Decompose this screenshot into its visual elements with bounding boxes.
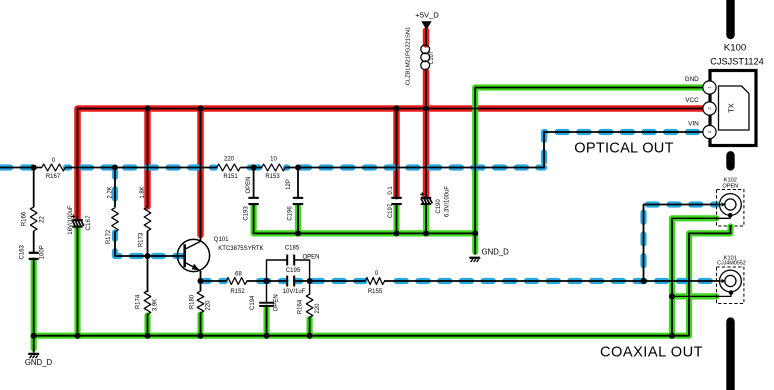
wire C197 top xyxy=(396,109,398,198)
label OPTICAL OUT xyxy=(574,140,674,156)
svg-text:OPEN: OPEN xyxy=(722,184,738,190)
label R153 xyxy=(265,174,280,180)
svg-text:10: 10 xyxy=(270,157,277,163)
board edge bar bottom xyxy=(726,322,734,390)
svg-text:GND_D: GND_D xyxy=(25,358,53,367)
wire main line seg2 xyxy=(66,167,217,169)
label Q101 part xyxy=(218,246,263,252)
capacitor C185 xyxy=(286,255,295,266)
inductor L107 xyxy=(421,45,430,70)
svg-text:+5V_D: +5V_D xyxy=(415,11,439,20)
node R172/main xyxy=(112,165,118,171)
node K102 tap xyxy=(641,278,647,284)
capacitor C193 xyxy=(248,197,258,205)
resistor R172 xyxy=(112,208,119,232)
wire R173 to R174 xyxy=(147,231,149,292)
wire VIN elbow to K100 pin3 xyxy=(544,132,704,168)
connector K100 pin 2 VCC xyxy=(703,102,716,115)
wire junction to C194 xyxy=(266,281,268,302)
svg-text:R172: R172 xyxy=(106,229,112,244)
wire R172 top blue highlight xyxy=(112,172,118,207)
svg-text:3: 3 xyxy=(707,130,712,133)
board edge bar middle xyxy=(726,155,734,166)
wire Q101 base blue highlight xyxy=(115,233,183,257)
wire main line seg3 xyxy=(241,167,263,169)
svg-text:R153: R153 xyxy=(265,174,280,180)
wire main to R166 xyxy=(33,168,35,208)
wire K102 shield riser xyxy=(671,218,673,335)
label C163 value xyxy=(40,245,46,259)
svg-text:C163: C163 xyxy=(20,244,26,259)
svg-text:OPTICAL OUT: OPTICAL OUT xyxy=(574,140,674,156)
resistor R180 xyxy=(197,291,204,313)
svg-text:GND_D: GND_D xyxy=(482,248,510,257)
svg-text:CJSJST1124: CJSJST1124 xyxy=(710,57,763,67)
wire VCC rail xyxy=(78,109,704,220)
node R173/rail xyxy=(145,106,151,112)
resistor R164 xyxy=(306,294,313,317)
node gnd rail end xyxy=(472,230,478,236)
svg-text:R173: R173 xyxy=(139,232,145,247)
wire R164 to bus xyxy=(309,317,311,336)
svg-text:K102: K102 xyxy=(724,178,737,184)
label K100 part xyxy=(710,57,763,67)
wire C194 bottom green highlight xyxy=(263,308,269,336)
svg-text:C197: C197 xyxy=(388,203,394,218)
node bus/C194 xyxy=(264,333,270,339)
wire C185 right arm xyxy=(295,260,309,281)
node L107/rail xyxy=(423,106,429,112)
wire VIN elbow blue highlight xyxy=(544,132,703,168)
wire emitter line blue highlight seg2 xyxy=(249,278,286,284)
label R173 value xyxy=(140,186,146,198)
label C185 xyxy=(285,246,300,252)
wire main line blue highlight seg4 xyxy=(286,164,544,170)
label K100 xyxy=(724,43,746,54)
label GND_D right xyxy=(482,248,510,257)
svg-text:OPEN: OPEN xyxy=(246,176,252,193)
label K101 xyxy=(724,255,737,261)
svg-text:1.8K: 1.8K xyxy=(140,186,146,198)
wire main to C193 xyxy=(253,168,255,198)
svg-text:L107: L107 xyxy=(429,51,435,64)
svg-text:R151: R151 xyxy=(223,174,238,180)
wire R164 bottom green highlight xyxy=(307,319,313,336)
label R174 xyxy=(136,294,142,309)
label C167 xyxy=(85,215,92,231)
svg-text:GND: GND xyxy=(685,76,700,83)
node C193/main xyxy=(251,165,257,171)
label C197 xyxy=(388,203,394,218)
svg-text:12P: 12P xyxy=(286,179,292,190)
label R172 xyxy=(106,229,112,244)
svg-text:KTC3875SYRTK: KTC3875SYRTK xyxy=(218,246,263,252)
wire emitter line seg4 xyxy=(384,280,726,282)
wire R172 to Q101 base xyxy=(115,233,184,257)
node bus/R180 xyxy=(198,333,204,339)
capacitor C163 xyxy=(29,252,39,260)
wire C196 bottom xyxy=(297,205,299,234)
svg-text:C167: C167 xyxy=(85,215,92,231)
svg-text:C185: C185 xyxy=(285,246,300,252)
svg-text:VIN: VIN xyxy=(688,120,699,127)
wire cap ground rail green highlight xyxy=(254,206,476,233)
label R174 value xyxy=(153,299,159,311)
label R167 xyxy=(46,174,61,180)
label C195 xyxy=(286,268,301,274)
label R152 xyxy=(230,289,245,295)
svg-text:220: 220 xyxy=(224,157,235,163)
label C194 value xyxy=(274,294,280,311)
svg-text:R167: R167 xyxy=(46,174,61,180)
label GND_D left xyxy=(25,358,53,367)
svg-text:68: 68 xyxy=(235,272,242,278)
wire K102 tap xyxy=(644,205,720,282)
label COAXIAL OUT xyxy=(600,344,703,360)
wire +5V_D to L107 red highlight xyxy=(423,31,430,45)
node C190/gnd rail xyxy=(423,230,429,236)
svg-text:C194: C194 xyxy=(250,295,256,310)
wire L107 to C190 xyxy=(425,70,427,198)
wire ground bus green highlight xyxy=(34,333,689,339)
label K102 value xyxy=(722,184,738,190)
svg-text:6.3V/100uF: 6.3V/100uF xyxy=(444,186,450,217)
resistor R167 xyxy=(42,164,66,171)
label pin VIN xyxy=(688,120,699,127)
pin K102 shield tab xyxy=(728,213,733,218)
label R172 value xyxy=(108,186,114,198)
wire K102 shield riser green highlight xyxy=(669,218,675,335)
label L107 xyxy=(429,51,435,64)
connector K100 pin 3 VIN xyxy=(703,125,716,138)
label C190 value xyxy=(444,186,450,217)
wire emitter line seg2 xyxy=(247,280,287,282)
capacitor C195 xyxy=(286,276,295,287)
label R155 xyxy=(368,289,383,295)
svg-text:TX: TX xyxy=(727,103,736,113)
wire emitter line seg1 xyxy=(201,280,227,282)
label R180 value xyxy=(206,300,212,311)
svg-text:R174: R174 xyxy=(136,294,142,309)
svg-text:C195: C195 xyxy=(286,268,301,274)
svg-text:220: 220 xyxy=(206,300,212,311)
connector K100 pin 1 GND xyxy=(703,81,716,94)
wire +5V_D to L107 xyxy=(425,29,427,46)
resistor R166 xyxy=(30,207,37,231)
svg-text:Q101: Q101 xyxy=(214,237,229,243)
wire R180 to bus xyxy=(200,313,202,336)
svg-text:CJJ4M0552: CJJ4M0552 xyxy=(717,260,746,266)
label C194 xyxy=(250,295,256,310)
label pin VCC xyxy=(685,97,699,104)
label C190 xyxy=(436,199,442,214)
wire R173 top xyxy=(147,109,149,208)
svg-text:3.9K: 3.9K xyxy=(153,299,159,311)
node R164 tap xyxy=(307,278,313,284)
label R166 value xyxy=(40,216,46,223)
wire emitter line blue highlight seg3 xyxy=(296,278,365,284)
label R153 value xyxy=(270,157,277,163)
label C163 xyxy=(20,244,26,259)
node C197/rail xyxy=(394,106,400,112)
label R152 value xyxy=(235,272,242,278)
label R151 value xyxy=(224,157,235,163)
wire R173 top red highlight xyxy=(144,109,151,207)
label L107 part xyxy=(405,27,411,86)
node R166/main xyxy=(31,165,37,171)
svg-text:K100: K100 xyxy=(724,43,746,54)
wire R166 to C163 xyxy=(33,231,35,252)
wire C167 bottom green highlight xyxy=(74,228,80,336)
wire main line seg4 xyxy=(285,167,544,169)
node C196/main xyxy=(295,165,301,171)
wire C196 bottom green highlight xyxy=(295,206,301,233)
svg-text:R155: R155 xyxy=(368,289,383,295)
wire L107 to C190 red highlight xyxy=(423,72,430,197)
wire Q101 collector red highlight xyxy=(197,109,204,236)
svg-text:R152: R152 xyxy=(230,289,245,295)
connector K101 RCA jack xyxy=(717,267,744,304)
resistor R155 xyxy=(365,278,385,285)
pin K101 shield tab xyxy=(729,290,734,295)
wire Q101 collector xyxy=(200,109,202,242)
label K101 part xyxy=(717,260,746,266)
label R164 xyxy=(298,299,304,314)
connector K102 RCA jack xyxy=(717,190,744,227)
label R155 value xyxy=(375,271,379,277)
resistor R151 xyxy=(217,164,241,171)
wire emitter line blue highlight seg4 xyxy=(385,278,716,284)
svg-text:OPEN: OPEN xyxy=(274,294,280,311)
svg-text:220: 220 xyxy=(315,303,321,314)
wire R174 bottom green highlight xyxy=(144,316,150,336)
label C185 value xyxy=(303,254,320,260)
wire C163 to bus xyxy=(33,259,35,336)
wire emitter line blue highlight seg1 xyxy=(204,278,226,284)
capacitor C190 xyxy=(420,192,432,205)
wire K102 shield tab green highlight xyxy=(672,215,717,221)
wire cap ground rail xyxy=(254,205,476,234)
svg-text:C196: C196 xyxy=(288,206,294,221)
resistor R173 xyxy=(144,207,151,231)
label R167 value xyxy=(52,158,56,164)
label C195 value xyxy=(283,289,306,295)
node C194 tap xyxy=(264,278,270,284)
node base/R173 xyxy=(145,253,151,259)
label C196 xyxy=(288,206,294,221)
svg-text:2.2K: 2.2K xyxy=(108,186,114,198)
label K102 xyxy=(724,178,737,184)
label Q101 xyxy=(214,237,229,243)
transistor Q101 xyxy=(177,239,209,271)
wire emitter line seg3 xyxy=(295,280,365,282)
node bus/C163 xyxy=(31,333,37,339)
svg-text:16V/100uF: 16V/100uF xyxy=(68,205,74,235)
board edge bar top xyxy=(726,0,734,35)
svg-text:10V/1uF: 10V/1uF xyxy=(283,289,306,295)
wire C197 bottom green highlight xyxy=(393,206,399,233)
label R166 xyxy=(22,211,28,226)
svg-text:R166: R166 xyxy=(22,211,28,226)
ground GND_D left xyxy=(28,353,39,358)
svg-text:R164: R164 xyxy=(298,299,304,314)
label R173 xyxy=(139,232,145,247)
wire main line blue highlight seg2 xyxy=(66,164,215,170)
wire C197 top red highlight xyxy=(393,109,400,197)
capacitor C167 xyxy=(71,214,84,227)
wire C197 bottom xyxy=(396,205,398,234)
resistor R174 xyxy=(144,291,151,315)
wire main to C196 xyxy=(297,168,299,198)
wire K102 shield tab xyxy=(672,215,730,218)
node bus/C167 xyxy=(75,333,81,339)
wire C190 bottom xyxy=(425,205,427,234)
wire K100 GND to ground xyxy=(475,88,703,254)
capacitor C196 xyxy=(293,197,303,205)
wire C194 to bus xyxy=(266,307,268,336)
wire K102 box shield to bus green highlight xyxy=(689,227,731,336)
power symbol +5V_D xyxy=(421,21,431,30)
capacitor C197 xyxy=(391,197,401,205)
svg-text:C190: C190 xyxy=(436,199,442,214)
label C193 value xyxy=(246,176,252,193)
wire C190 bottom green highlight xyxy=(423,206,429,233)
wire K101 shield tab green highlight xyxy=(672,293,717,299)
label TX xyxy=(727,103,736,113)
label C197 value xyxy=(388,186,394,195)
node K101/K102 shield xyxy=(669,293,675,299)
wire main to R172 xyxy=(114,168,116,208)
node bus/R174 xyxy=(145,333,151,339)
node emitter xyxy=(198,278,204,284)
label R164 value xyxy=(315,303,321,314)
connector K100 body xyxy=(710,71,756,146)
svg-text:R180: R180 xyxy=(190,294,196,309)
node C197/gnd rail xyxy=(394,230,400,236)
node bus/K102 shield xyxy=(669,333,675,339)
wire K101 shield tab xyxy=(672,293,731,297)
svg-text:0.1: 0.1 xyxy=(388,186,394,195)
svg-text:22: 22 xyxy=(40,216,46,223)
connector K100 TX module xyxy=(719,86,750,130)
wire junction to R164 xyxy=(309,281,311,295)
wire bus to GND_D xyxy=(33,336,35,353)
wire C185 left arm xyxy=(267,260,287,281)
wire K102 tap blue highlight xyxy=(644,205,718,278)
svg-text:100P: 100P xyxy=(40,245,46,259)
svg-text:OPEN: OPEN xyxy=(303,254,320,260)
label C193 xyxy=(244,206,250,221)
svg-text:C193: C193 xyxy=(244,206,250,221)
label R151 xyxy=(223,174,238,180)
label C196 value xyxy=(286,179,292,190)
wire R174 to bus xyxy=(147,315,149,336)
wire R180 bottom green highlight xyxy=(197,315,203,336)
svg-text:2: 2 xyxy=(707,107,712,110)
wire main line blue highlight seg3 xyxy=(242,164,262,170)
node bus/R164 xyxy=(307,333,313,339)
svg-text:1: 1 xyxy=(707,86,712,89)
wire C167 to bus xyxy=(77,227,79,336)
label +5V_D xyxy=(415,11,439,20)
wire main line seg1 xyxy=(0,167,42,169)
wire K100 GND green highlight xyxy=(475,88,702,253)
ground GND_D right xyxy=(469,257,480,262)
label C167 value xyxy=(68,205,74,235)
svg-text:COAXIAL OUT: COAXIAL OUT xyxy=(600,344,703,360)
node C196/gnd rail xyxy=(295,230,301,236)
resistor R153 xyxy=(262,164,286,171)
node collector/rail xyxy=(198,106,204,112)
resistor R152 xyxy=(226,278,247,285)
wire VCC rail red highlight xyxy=(78,109,703,219)
capacitor C194 xyxy=(259,302,274,307)
wire K102 box shield to bus xyxy=(689,226,731,336)
wire Q101 emitter to R180 xyxy=(200,271,202,291)
wire main line blue highlight seg1 xyxy=(1,164,41,170)
svg-text:VCC: VCC xyxy=(685,97,699,104)
label pin GND xyxy=(685,76,700,83)
label R180 xyxy=(190,294,196,309)
wire GND_D stub green highlight xyxy=(31,336,37,349)
wire ground bus xyxy=(34,335,689,337)
wire C163 bottom green highlight xyxy=(31,261,37,336)
svg-text:CLZBLM21PG221SN1: CLZBLM21PG221SN1 xyxy=(405,27,411,86)
